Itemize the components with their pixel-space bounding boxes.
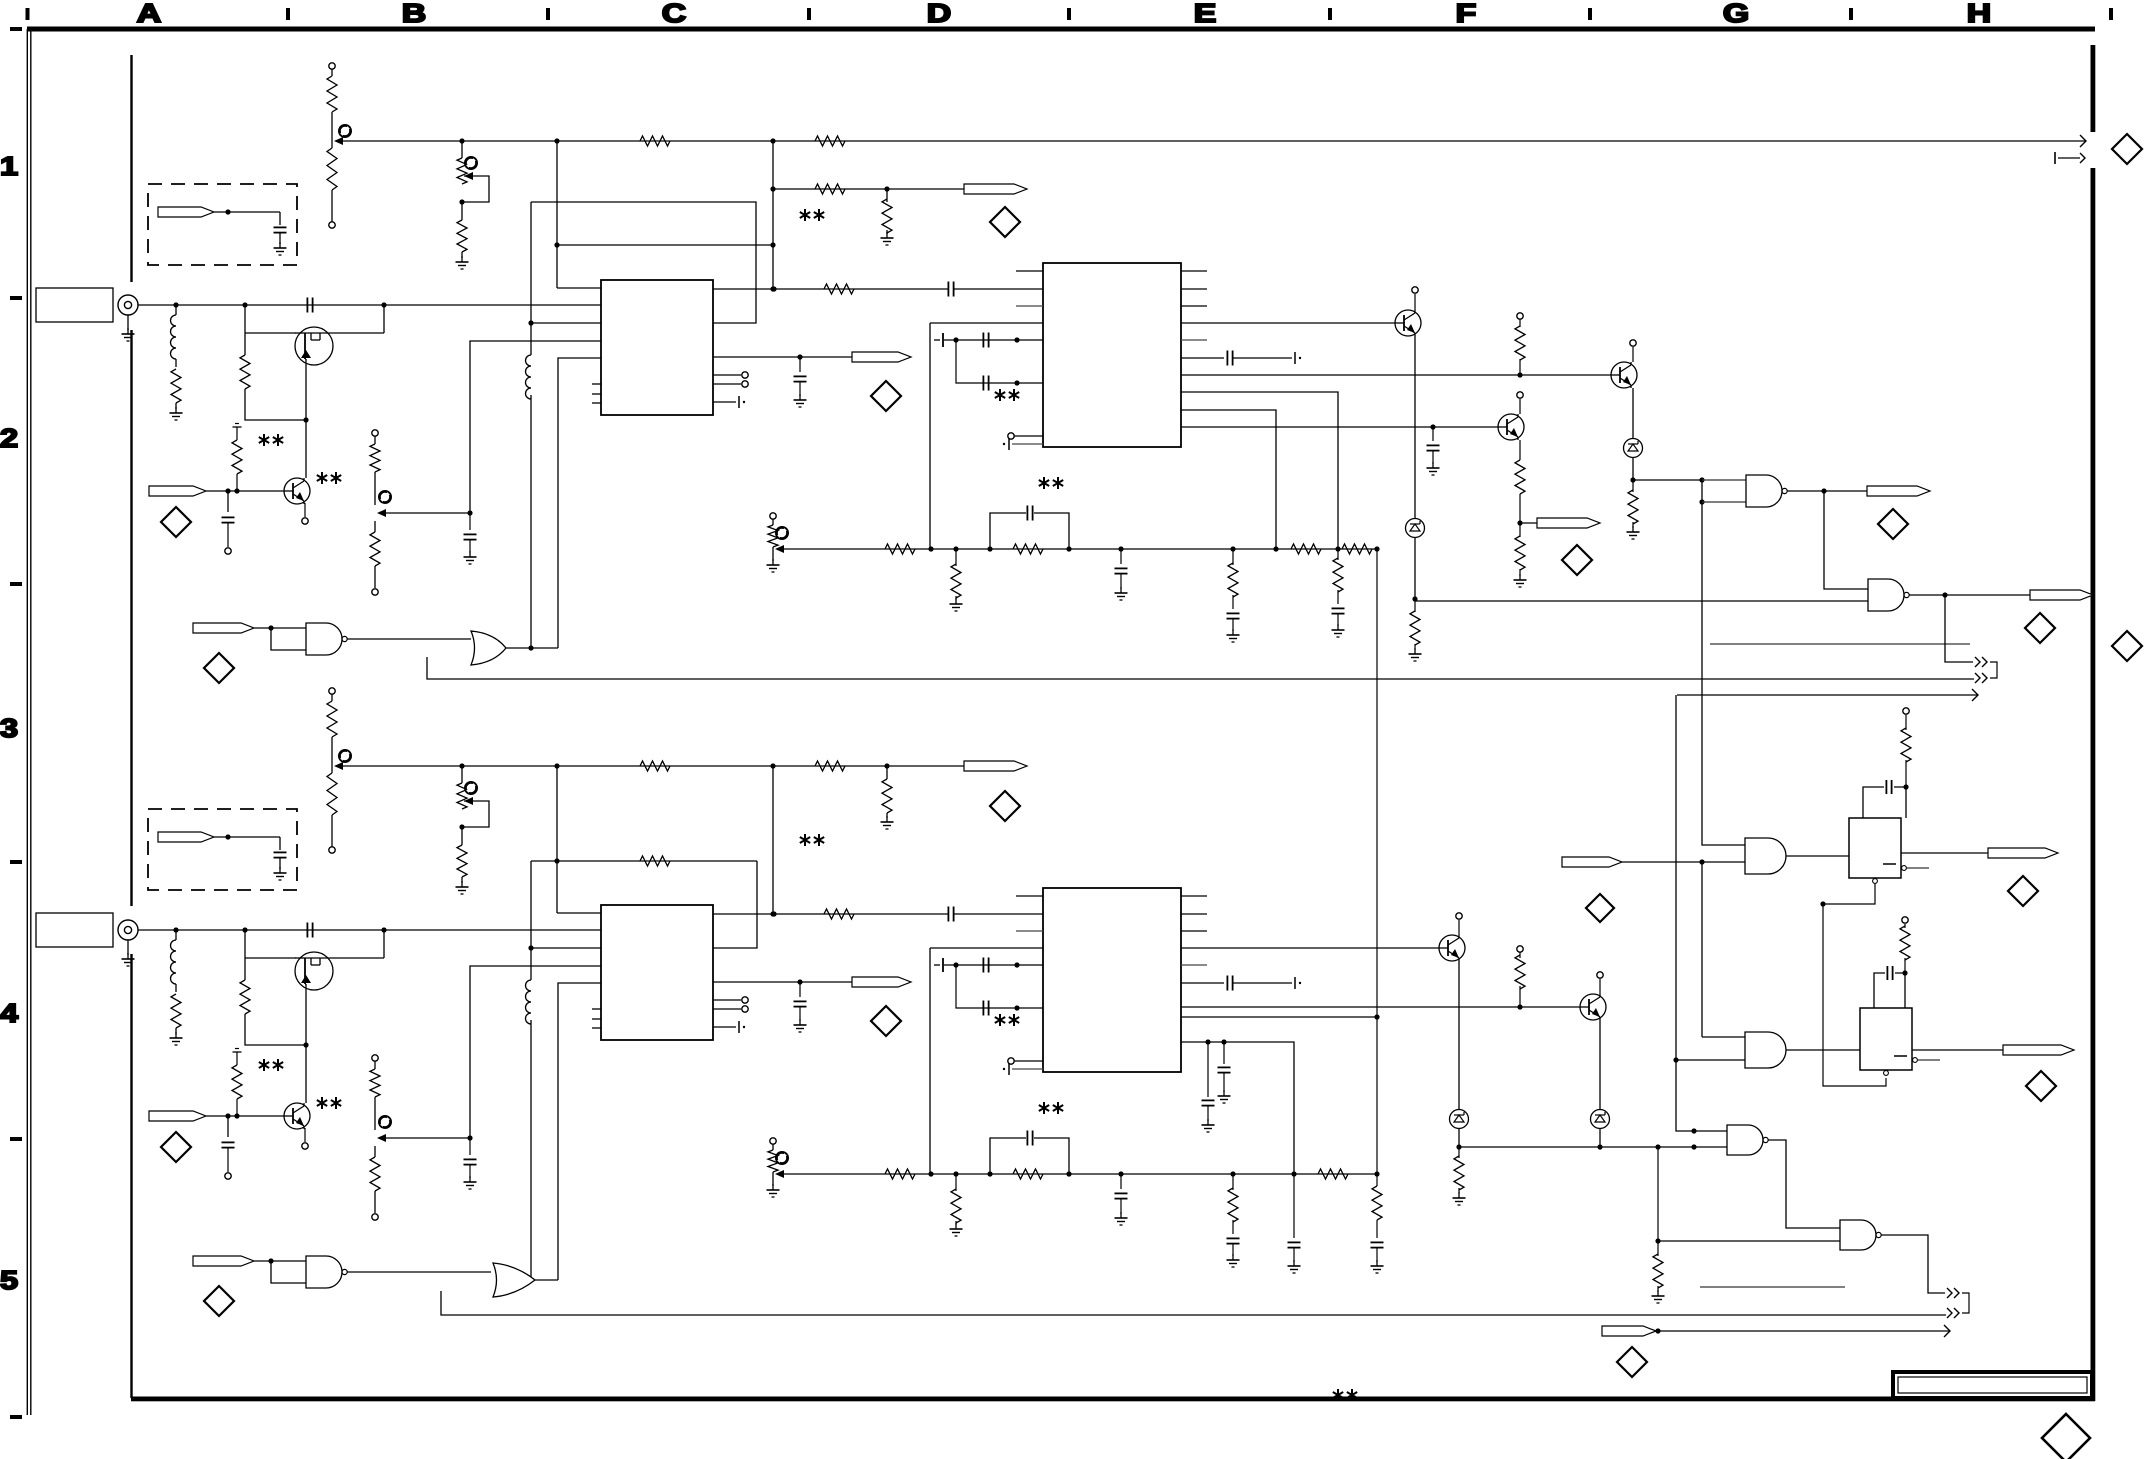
rail resistor 1 — [885, 544, 915, 554]
IC2 left stub 306 — [1016, 930, 1043, 932]
FET drain wire — [333, 305, 384, 333]
svg-text:3: 3 — [0, 714, 18, 743]
resistor R on bus — [640, 136, 670, 146]
IC U3 tone decoder — [601, 905, 713, 1040]
bias resistor — [232, 424, 242, 492]
IC2 right stubs — [1181, 896, 1207, 965]
svg-text:A: A — [137, 0, 161, 28]
rail wire — [779, 548, 1377, 550]
IC U2 stereo decoder — [1043, 263, 1181, 447]
IC1 pin cap stub — [713, 1021, 745, 1033]
FET source wire — [303, 365, 308, 423]
coil on x531 — [526, 355, 536, 399]
resistor R on bus — [640, 761, 670, 771]
off-page diamond N4 — [2025, 613, 2055, 643]
rail res cap gnd 1233 — [1227, 546, 1240, 642]
IC2 mark stub — [1003, 1063, 1043, 1075]
off-page diamond FF1 — [2008, 876, 2038, 906]
IC1 out wire — [713, 979, 852, 984]
Q4 collector terminal — [1517, 392, 1523, 414]
FET source wire — [303, 990, 308, 1048]
rail cap gnd 1121 — [1115, 546, 1128, 600]
zener3 to node — [1456, 1129, 1461, 1150]
rail cap gnd 1121 — [1115, 1171, 1128, 1225]
wire x531 to IC1 — [531, 322, 601, 324]
zener D2 — [1624, 439, 1643, 458]
node to NAND2 wire — [1415, 600, 1868, 602]
OR out wire — [535, 1279, 558, 1281]
off-page diamond IC1 — [871, 381, 901, 411]
A2 to FF2 — [1786, 1049, 1860, 1051]
nand4b input wire — [1658, 1240, 1840, 1242]
trimmer P3 — [370, 1055, 477, 1220]
dashed alignment box ch2 — [148, 809, 297, 890]
IC2 cap loop — [934, 333, 1043, 391]
resistor Rs — [240, 333, 306, 420]
bus x557b — [557, 766, 601, 913]
rail resistor 1 — [885, 1169, 915, 1179]
IC U1 tone decoder — [601, 280, 713, 415]
rail wire — [779, 1173, 1377, 1175]
trimmer P1 — [327, 688, 351, 853]
signal label gate in — [193, 1256, 306, 1283]
bus x773b — [770, 766, 775, 917]
svg-text:G: G — [1723, 0, 1749, 28]
riser x930 — [930, 948, 1043, 1174]
RCA input jack — [118, 295, 138, 341]
bus x1658 — [1655, 1144, 1660, 1243]
Q3 emitter chain — [1414, 336, 1416, 518]
asterisks bottom — [1333, 1389, 1357, 1401]
title block — [1893, 1372, 2092, 1398]
border left double line — [27, 29, 31, 1415]
test point label TP — [158, 207, 287, 255]
bus x1676 — [1673, 695, 1727, 1134]
signal label IC1 out — [852, 352, 911, 362]
svg-text:2: 2 — [0, 424, 18, 453]
trimmer P3 — [370, 430, 477, 595]
off-page diamond IC1 — [871, 1006, 901, 1036]
wire IC1 to IC2 — [713, 282, 1043, 297]
N3 out wire — [1787, 488, 1867, 493]
FF1 cap loop — [1863, 780, 1909, 818]
wire gate — [245, 305, 296, 333]
inductor L1 — [170, 930, 183, 1045]
wire IC1 to IC2 — [713, 907, 1043, 922]
IC1 pin circles — [713, 997, 748, 1012]
wire y861 — [531, 856, 757, 948]
svg-text:H: H — [1967, 0, 1991, 28]
IC2 cap loop — [934, 958, 1043, 1016]
FF1 bottom pin — [1820, 879, 1886, 1086]
Q5 base wire — [1181, 374, 1611, 376]
Q6 collector terminal — [1456, 913, 1462, 935]
cap to testpoint — [222, 1116, 235, 1179]
trimmer P2 — [456, 141, 490, 269]
cap-arrow stub right — [2055, 152, 2085, 164]
Q3 collector terminal — [1412, 287, 1418, 310]
rail resistor right b — [1318, 1169, 1348, 1179]
rail res cap gnd 1233 — [1227, 1171, 1240, 1267]
IC2 pin cap row — [1181, 351, 1301, 366]
input jack label box — [36, 288, 113, 322]
FET drain wire — [333, 930, 384, 958]
N5 to N6 wire — [1768, 1140, 1840, 1228]
N4 to connector — [1945, 595, 1973, 662]
Q7 collector terminal — [1597, 972, 1603, 994]
svg-text:E: E — [1194, 0, 1217, 28]
riser x558 — [558, 358, 601, 648]
IC1 left stubs — [592, 384, 601, 403]
inductor L1 — [170, 305, 183, 420]
riser x930 — [930, 323, 1043, 549]
cap to testpoint — [222, 491, 235, 554]
asterisks IC2 — [995, 1014, 1019, 1026]
connector chevrons B — [1975, 673, 1987, 683]
off-page diamond N3 — [1878, 509, 1908, 539]
test point label TP — [158, 832, 287, 880]
node to bus wire — [1633, 479, 1702, 481]
off-page diamond right margin row3 — [2112, 631, 2142, 661]
node y1147 wire — [1459, 1144, 1727, 1149]
resistor R2 on bus — [815, 761, 845, 771]
asterisks b — [317, 472, 341, 484]
input jack label box — [36, 913, 113, 947]
NAND gate N4 — [1868, 579, 1909, 611]
note line — [1710, 643, 1970, 645]
OR low input — [427, 657, 1974, 679]
rail resistor right — [1342, 544, 1372, 554]
bus x773 — [770, 141, 775, 292]
arrowhead bus right — [2080, 135, 2086, 147]
asterisks IC2 — [995, 389, 1019, 401]
NAND gate N5 — [1727, 1125, 1768, 1155]
zener D4 — [1591, 1110, 1610, 1129]
off-page diamond Fb — [1586, 894, 1614, 922]
single arrow line — [1677, 689, 1978, 701]
FF2 out — [1912, 1049, 2003, 1051]
asterisks a — [259, 1059, 283, 1071]
NAND gate N6 — [1840, 1220, 1881, 1250]
rail junction 931 — [928, 1171, 933, 1176]
signal label FF1 — [1988, 848, 2058, 858]
asterisks mid — [800, 834, 824, 846]
transistor Q2 input — [284, 478, 310, 504]
trimmer P1 — [327, 63, 351, 228]
asterisks rail — [1039, 477, 1063, 489]
NAND to OR wire — [347, 638, 471, 640]
wire long top bus — [336, 138, 2085, 143]
riser x470 — [470, 341, 601, 513]
NAND3 inputs — [1702, 480, 1746, 502]
FET Q1 input — [295, 327, 333, 365]
signal label gate in — [193, 623, 306, 650]
resistor to gnd at 887 — [881, 763, 894, 829]
off-page diamond bottom-right margin — [2042, 1414, 2090, 1459]
trimmer P4 on rail — [767, 513, 788, 572]
Q6 base wire — [1181, 947, 1439, 949]
A2 lower input — [1676, 1059, 1745, 1061]
trimmer P2 — [456, 766, 490, 894]
asterisks b — [317, 1097, 341, 1109]
transistor Q3 — [1395, 310, 1421, 336]
FF1 stub right — [1902, 866, 1929, 871]
dashed alignment box ch1 — [148, 184, 297, 265]
svg-text:F: F — [1456, 0, 1477, 28]
wire x531b to IC1 — [531, 947, 601, 949]
riser x1276 — [1181, 410, 1279, 552]
row ticks left — [10, 296, 22, 1419]
Q2 emitter terminal — [302, 503, 308, 524]
zener2 to node — [1630, 458, 1635, 483]
signal label FF2 — [2003, 1045, 2074, 1055]
signal label y862 — [1562, 857, 1745, 867]
input wire — [138, 298, 601, 313]
bus x531b — [528, 861, 533, 1283]
cap gnd IC1 out — [794, 357, 807, 407]
signal label IC1 out — [852, 977, 911, 987]
rail resistor mid2 — [1291, 544, 1321, 554]
bus x1702 lower — [1702, 862, 1745, 1037]
x1658 resistor gnd — [1652, 1241, 1665, 1303]
FF1 pullup — [1901, 708, 1911, 787]
zener to node — [1412, 538, 1417, 602]
IC2 circle stub — [1008, 433, 1043, 439]
A1 to FF1 — [1786, 855, 1849, 857]
bias resistor — [232, 1049, 242, 1117]
Q5 node resistor gnd — [1627, 480, 1640, 539]
off-page diamond FF2 — [2026, 1071, 2056, 1101]
inter-channel vertical x1377 — [1374, 546, 1379, 1174]
Q7 base wire — [1181, 1006, 1580, 1008]
Q5 collector terminal — [1630, 340, 1636, 362]
svg-text:C: C — [662, 0, 686, 28]
AND gate A2 — [1745, 1032, 1786, 1068]
wire long bottom bus — [336, 763, 964, 768]
Q2 collector — [305, 1045, 307, 1103]
off-page diamond b1 — [1617, 1347, 1647, 1377]
RCA input jack — [118, 920, 138, 966]
pullup R Q7 — [1515, 946, 1525, 1010]
rail cap loop — [987, 1131, 1071, 1180]
rail junction 931 — [928, 546, 933, 551]
cap gnd y1042 b — [1202, 1039, 1215, 1132]
IC2 mark stub — [1003, 438, 1043, 450]
flip-flop FF1 box — [1849, 818, 1901, 878]
off-page diamond input — [161, 507, 191, 537]
Q7 emitter chain — [1599, 1020, 1601, 1110]
transistor Q5 — [1611, 362, 1637, 388]
Q3 base wire — [1181, 322, 1395, 324]
NAND gate input — [306, 623, 347, 655]
input wire — [138, 923, 601, 938]
pullup R Q5 — [1515, 313, 1525, 378]
FET Q1 input — [295, 952, 333, 990]
wire y245 — [557, 242, 776, 247]
IC2 left stub 271 — [1016, 270, 1043, 272]
zener D1 — [1406, 519, 1425, 538]
riser x1294 — [1181, 1042, 1301, 1273]
cap gnd y1042 a — [1218, 1039, 1231, 1103]
border bottom bar — [131, 1397, 2095, 1402]
IC2 left stub 271 — [1016, 895, 1043, 897]
signal label Q4 — [1520, 518, 1600, 528]
cap on Q4 base — [1427, 424, 1440, 475]
rail resistor gnd 956 — [950, 1171, 963, 1236]
off-page diamond input — [161, 1132, 191, 1162]
Q2 emitter terminal — [302, 1128, 308, 1149]
riser x470 — [470, 966, 601, 1138]
off-page diamond bus — [990, 791, 1020, 821]
off-page diamond y218 — [990, 207, 1020, 237]
transistor Q7 — [1580, 994, 1606, 1020]
FF2 bottom pin — [1884, 1071, 1889, 1076]
cap gnd IC1 out — [794, 982, 807, 1032]
NAND gate N3 — [1746, 475, 1787, 507]
off-page diamond gate — [204, 1286, 234, 1316]
N4 out wire — [1909, 592, 2030, 597]
svg-text:1: 1 — [0, 152, 18, 181]
transistor Q6 — [1439, 935, 1465, 961]
asterisks rail — [1039, 1102, 1063, 1114]
branch y189 — [773, 184, 964, 194]
column ticks top — [26, 8, 2114, 20]
IC2 pin cap row — [1181, 976, 1301, 991]
resistor gnd 887 — [881, 189, 894, 245]
Q4 node resistor gnd — [1514, 523, 1527, 587]
svg-text:4: 4 — [0, 999, 19, 1028]
signal label N3 — [1867, 486, 1930, 496]
asterisks a — [259, 434, 283, 446]
FF1 out — [1901, 852, 1988, 854]
signal label bus — [964, 761, 1027, 771]
rail resistor gnd 956 — [950, 546, 963, 611]
connector chevrons C — [1947, 1288, 1969, 1313]
resistor Rs — [240, 958, 306, 1045]
zener4 stub — [1597, 1129, 1602, 1150]
wire gate — [245, 930, 296, 958]
node resistor gnd b — [1453, 1147, 1466, 1205]
IC1 pin circles — [713, 372, 748, 387]
transistor Q2 input — [284, 1103, 310, 1129]
svg-text:5: 5 — [0, 1266, 18, 1295]
bus x557 — [554, 141, 601, 288]
rail cap loop — [987, 506, 1071, 555]
AND gate A1 — [1745, 838, 1786, 874]
connector chevrons D — [1947, 1308, 1959, 1318]
off-page diamond gate — [204, 653, 234, 683]
OR gate — [493, 1263, 535, 1297]
IC U4 stereo decoder — [1043, 888, 1181, 1072]
off-page diamond top-right margin — [2112, 134, 2142, 164]
note line b — [1700, 1286, 1845, 1288]
riser x1377 — [1181, 1017, 1384, 1273]
row numbers 1-5 — [0, 152, 19, 1295]
FF2 cap loop — [1874, 966, 1908, 1008]
NAND gate input — [306, 1256, 347, 1288]
svg-text:B: B — [402, 0, 426, 28]
signal label y1331 — [1602, 1325, 1950, 1337]
signal label y189 — [964, 184, 1027, 194]
wire y202 — [531, 202, 756, 323]
Q4 emitter chain — [1515, 440, 1525, 526]
zener D3 — [1450, 1110, 1469, 1129]
bus x531 — [528, 202, 533, 648]
asterisks mid — [800, 209, 824, 221]
off-page diamond F — [1562, 545, 1592, 575]
resistor R2 on bus — [815, 136, 845, 146]
column letters A-H — [137, 0, 1991, 28]
IC1 pin cap stub — [713, 396, 745, 408]
transistor Q4 — [1498, 414, 1524, 440]
svg-text:D: D — [927, 0, 951, 28]
IC2 left stub 306 — [1016, 305, 1043, 307]
IC1 out wire — [713, 354, 852, 359]
trimmer P4 on rail — [767, 1138, 788, 1197]
border right bar — [2091, 45, 2096, 1401]
IC2 right stubs — [1181, 271, 1207, 340]
inner left margin line — [130, 55, 132, 1398]
N6 out wire — [1881, 1235, 1945, 1293]
OR low input — [441, 1291, 1946, 1315]
node resistor gnd — [1409, 599, 1422, 661]
IC2 circle stub — [1008, 1058, 1043, 1064]
Q5 emitter chain — [1632, 388, 1634, 438]
Q6 emitter chain — [1458, 961, 1460, 1109]
N3 to N4 wire — [1824, 491, 1868, 589]
signal label base — [149, 486, 284, 496]
coil on x531b — [526, 980, 536, 1024]
NAND to OR wire — [347, 1271, 491, 1273]
signal label base — [149, 1111, 284, 1121]
FF2 stub right — [1913, 1058, 1940, 1063]
OR out wire — [506, 645, 558, 650]
flip-flop FF2 box — [1860, 1008, 1912, 1070]
FF2 pullup — [1900, 917, 1910, 973]
riser x558 — [558, 983, 601, 1280]
connector chevrons A — [1975, 657, 1997, 678]
signal label N4 — [2030, 590, 2093, 600]
border top bar — [27, 27, 2095, 32]
riser x1338 — [1181, 392, 1345, 637]
OR gate — [471, 631, 506, 665]
corner tick top-left — [10, 27, 22, 31]
Q4 base wire — [1181, 426, 1498, 428]
IC1 left stubs — [592, 1009, 601, 1028]
bus x1702 — [1699, 477, 1745, 845]
Q2 collector — [305, 420, 307, 478]
